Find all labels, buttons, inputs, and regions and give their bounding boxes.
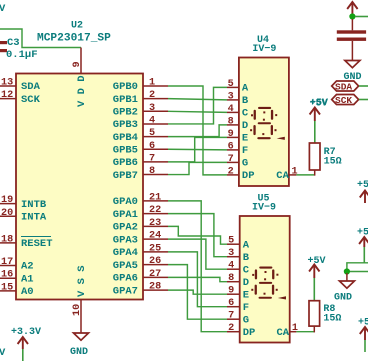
svg-text:MCP23017_SP: MCP23017_SP (37, 33, 111, 45)
U2 pin 13 SDA (0, 78, 41, 94)
junction dot right gnd cluster (344, 268, 350, 274)
display U5 IV-9 body (240, 216, 290, 343)
svg-text:+5V: +5V (310, 99, 328, 110)
svg-text:1: 1 (292, 166, 298, 177)
svg-text:GPB7: GPB7 (113, 170, 138, 182)
wire GPA1 to U5 B (168, 214, 227, 257)
svg-text:5: 5 (228, 79, 234, 90)
svg-text:D: D (243, 277, 249, 289)
svg-text:+5V: +5V (358, 318, 368, 329)
svg-text:G: G (243, 314, 249, 326)
svg-text:IV−9: IV−9 (252, 44, 276, 55)
svg-text:1: 1 (292, 323, 298, 334)
svg-text:18: 18 (1, 234, 13, 245)
U4 pin 9 E (227, 129, 248, 145)
wire GPB0 to U4 DP (168, 86, 227, 175)
wire GPB6 to U4 E (168, 137, 227, 162)
U4 pin 3 B (227, 91, 249, 107)
wire R8 to U5 CA (296, 326, 314, 332)
svg-text:13: 13 (1, 78, 13, 89)
svg-text:9: 9 (228, 129, 234, 140)
svg-text:GND: GND (334, 293, 352, 304)
svg-text:B: B (242, 95, 249, 107)
U5 pin 9 E (227, 286, 249, 302)
wire R7 to U4 CA (296, 170, 314, 176)
svg-text:GPB3: GPB3 (113, 119, 138, 131)
svg-text:V D D: V D D (76, 75, 88, 107)
svg-text:15Ω: 15Ω (324, 157, 342, 168)
svg-text:28: 28 (149, 282, 161, 293)
wire GPB1 to U4 B (168, 99, 227, 100)
svg-text:SCK: SCK (335, 95, 352, 106)
U2 pin 20 INTA (0, 208, 47, 224)
svg-text:8: 8 (149, 166, 155, 177)
U2 pin 8 GPB7 (113, 166, 168, 182)
U2 pin 21 GPA0 (113, 192, 168, 208)
svg-text:9: 9 (72, 61, 83, 67)
svg-text:8: 8 (228, 273, 234, 284)
svg-text:6: 6 (149, 141, 155, 152)
svg-text:21: 21 (149, 192, 161, 203)
svg-text:GPA2: GPA2 (113, 222, 138, 234)
U5 pin 6 F (227, 298, 249, 314)
U2 pin 16 A1 (0, 270, 34, 286)
svg-text:E: E (243, 289, 249, 301)
svg-text:4: 4 (228, 104, 234, 115)
ground symbol top-right (344, 61, 362, 84)
U5 pin 5 A (227, 236, 250, 252)
svg-text:INTA: INTA (21, 212, 47, 224)
U2 pin 4 GPB3 (113, 115, 168, 131)
svg-text:20: 20 (1, 208, 13, 219)
wire right edge gnd cluster (347, 263, 368, 272)
svg-text:INTB: INTB (21, 199, 47, 211)
U2 pin 10 VSS (72, 265, 88, 333)
wire GPB3 to U4 A (168, 87, 227, 124)
supply +5V left of SCK (310, 99, 328, 110)
supply +5V bottom-right corner (cut) (358, 318, 368, 353)
U5 reference label (258, 194, 270, 205)
ground symbol right cluster (334, 273, 354, 304)
svg-text:26: 26 (149, 256, 161, 267)
svg-text:22: 22 (149, 205, 161, 216)
wire GPA0 to U5 DP (168, 201, 227, 332)
junction dot top-right (349, 13, 355, 19)
wire junction to capacitor (351, 19, 353, 30)
svg-text:8: 8 (228, 116, 234, 127)
wire GPA3 to U5 C (168, 239, 227, 269)
svg-text:A: A (243, 239, 250, 251)
wire GPB4 to U4 D (168, 125, 227, 137)
svg-text:27: 27 (149, 269, 161, 280)
U4 pin 4 C (227, 104, 249, 120)
svg-text:SDA: SDA (21, 81, 41, 93)
supply +5V right edge upper (cut) (357, 180, 368, 203)
svg-text:GPB5: GPB5 (113, 144, 138, 156)
svg-text:15: 15 (1, 282, 13, 293)
svg-text:9: 9 (228, 286, 234, 297)
port flag SDA (332, 81, 368, 93)
U4 pin 8 D (227, 116, 248, 132)
U2 pin 28 GPA7 (113, 282, 168, 298)
wire capacitor to ground (351, 41, 353, 61)
svg-text:16: 16 (1, 270, 13, 281)
svg-text:6: 6 (228, 141, 234, 152)
svg-text:RESET: RESET (21, 238, 53, 250)
svg-text:3: 3 (228, 91, 234, 102)
U2 pin 2 GPB1 (113, 90, 168, 106)
U2 pin 23 GPA2 (113, 218, 168, 234)
svg-text:10: 10 (72, 304, 83, 316)
svg-text:7: 7 (149, 153, 155, 164)
resistor R7 (309, 143, 341, 170)
U2 pin 26 GPA5 (113, 256, 168, 272)
supply +5V for R7 (310, 98, 328, 143)
svg-text:2: 2 (228, 323, 234, 334)
supply +5V for R8 (308, 256, 326, 301)
wire GPB2 to U4 C (168, 111, 227, 112)
U2 pin 12 SCK (0, 90, 41, 106)
svg-text:GPB6: GPB6 (113, 157, 138, 169)
U2 pin 15 A0 (0, 282, 34, 298)
svg-text:C: C (242, 108, 249, 120)
U2 reference label (71, 21, 83, 32)
U2 pin 24 GPA3 (113, 231, 168, 247)
svg-text:7: 7 (228, 311, 234, 322)
net label V (cut off, bottom-left) (0, 347, 6, 359)
U4 pin 7 G (227, 154, 248, 170)
U2 pin 1 GPB0 (113, 78, 168, 94)
svg-text:V: V (0, 3, 6, 15)
svg-text:+5V: +5V (357, 228, 368, 239)
svg-text:GPA3: GPA3 (113, 234, 138, 246)
svg-text:2: 2 (228, 166, 234, 177)
svg-text:3: 3 (149, 103, 155, 114)
supply +3.3V (11, 327, 41, 361)
wire +V to U2 VDD (0, 29, 81, 48)
U2 value label MCP23017_SP (37, 33, 111, 45)
svg-text:U2: U2 (71, 21, 83, 32)
svg-text:+5V: +5V (308, 256, 326, 267)
svg-text:12: 12 (1, 90, 13, 101)
U2 pin 27 GPA6 (113, 269, 168, 285)
svg-text:GPA7: GPA7 (113, 285, 138, 297)
supply arrow top-right (347, 2, 357, 14)
U2 pin 5 GPB4 (113, 128, 168, 144)
net label V (cut off, top-left) (0, 3, 6, 15)
wire GPA7 to U5 E (168, 290, 227, 294)
svg-text:GPA5: GPA5 (113, 260, 138, 272)
resistor R8 (309, 301, 341, 326)
U2 pin 22 GPA1 (113, 205, 168, 221)
svg-text:4: 4 (149, 115, 155, 126)
svg-text:CA: CA (276, 170, 289, 182)
U2 pin 17 A2 (0, 257, 34, 273)
svg-text:+3.3V: +3.3V (11, 327, 41, 338)
svg-text:3: 3 (228, 248, 234, 259)
svg-text:15Ω: 15Ω (323, 314, 341, 325)
svg-text:F: F (243, 302, 249, 314)
svg-text:GPB1: GPB1 (113, 94, 138, 106)
wire GPA6 to U5 D (168, 277, 227, 281)
U2 pin 3 GPB2 (113, 103, 168, 119)
U2 pin 9 VDD (72, 48, 88, 108)
svg-text:SDA: SDA (335, 82, 352, 93)
IC U2 MCP23017_SP body (16, 74, 143, 300)
svg-text:A0: A0 (21, 286, 34, 298)
port flag SCK (332, 95, 368, 107)
svg-text:G: G (242, 158, 248, 170)
display U4 IV-9 body (239, 58, 289, 187)
U4 pin 2 DP (227, 166, 255, 182)
U2 pin 6 GPB5 (113, 141, 168, 157)
svg-text:F: F (242, 145, 248, 157)
svg-text:GPB0: GPB0 (113, 81, 138, 93)
svg-text:24: 24 (149, 231, 161, 242)
U4 pin 1 CA (276, 166, 297, 182)
U2 pin 25 GPA4 (113, 243, 168, 259)
U4 value label IV-9 (252, 44, 276, 55)
svg-text:0.1µF: 0.1µF (6, 49, 38, 61)
wire from junction to right edge (355, 16, 368, 18)
svg-text:GND: GND (70, 347, 88, 358)
svg-text:GPA0: GPA0 (113, 196, 138, 208)
U5 pin 3 B (227, 248, 250, 264)
U4 pin 5 A (227, 79, 249, 95)
svg-text:17: 17 (1, 257, 13, 268)
svg-text:+5V: +5V (357, 180, 368, 191)
wire GPB7 to U4 G (168, 162, 227, 174)
svg-text:6: 6 (228, 298, 234, 309)
svg-text:5: 5 (149, 128, 155, 139)
U5 pin 1 CA (277, 323, 299, 339)
U5 pin 4 C (227, 261, 250, 277)
svg-text:25: 25 (149, 243, 161, 254)
supply +5V right edge mid (cut) (357, 228, 368, 263)
svg-text:IV−9: IV−9 (252, 203, 276, 214)
svg-text:B: B (243, 252, 250, 264)
U5 pin 8 D (227, 273, 249, 289)
svg-text:A1: A1 (21, 273, 34, 285)
svg-text:E: E (242, 133, 248, 145)
svg-text:4: 4 (228, 261, 234, 272)
svg-text:V S S: V S S (76, 265, 88, 297)
svg-text:A: A (242, 83, 249, 95)
svg-text:23: 23 (149, 218, 161, 229)
wire GPA2 to U5 A (168, 226, 227, 244)
svg-text:DP: DP (242, 170, 255, 182)
svg-text:A2: A2 (21, 261, 34, 273)
svg-text:GPA4: GPA4 (113, 247, 138, 259)
svg-text:DP: DP (243, 327, 256, 339)
wire GPA5 to U5 G (168, 265, 227, 320)
svg-text:5: 5 (228, 236, 234, 247)
svg-text:V: V (0, 347, 6, 359)
U2 pin 7 GPB6 (113, 153, 168, 169)
svg-text:C3: C3 (7, 37, 20, 49)
svg-text:GPB4: GPB4 (113, 132, 138, 144)
svg-text:GPA6: GPA6 (113, 273, 138, 285)
wire GPA4 to U5 F (168, 252, 227, 307)
U2 pin 18 RESET (0, 234, 53, 250)
U5 pin 7 G (227, 311, 249, 327)
U4 pin 6 F (227, 141, 248, 157)
U4 seven-segment glyph (250, 107, 285, 140)
svg-text:CA: CA (277, 327, 290, 339)
U2 pin 19 INTB (0, 195, 47, 211)
svg-text:GPB2: GPB2 (113, 107, 138, 119)
U5 seven-segment glyph (251, 267, 286, 300)
wire GPB5 to U4 F (168, 148, 227, 151)
svg-text:C: C (243, 264, 250, 276)
svg-text:GPA1: GPA1 (113, 209, 138, 221)
svg-text:D: D (242, 120, 248, 132)
capacitor top-right plates (337, 30, 366, 41)
svg-text:7: 7 (228, 154, 234, 165)
svg-text:1: 1 (149, 78, 155, 89)
U5 pin 2 DP (227, 323, 255, 339)
svg-text:SCK: SCK (21, 94, 41, 106)
capacitor C3 (0, 37, 38, 61)
svg-text:2: 2 (149, 90, 155, 101)
ground symbol below U2 (70, 333, 89, 358)
U4 reference label (257, 35, 269, 46)
U5 value label IV-9 (252, 203, 276, 214)
svg-text:19: 19 (1, 195, 13, 206)
